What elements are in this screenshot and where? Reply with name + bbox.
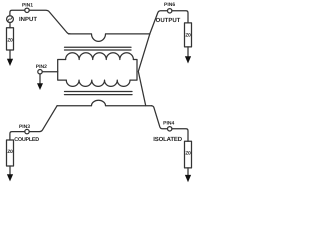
resistor Z0 (input termination) (7, 28, 14, 50)
svg-text:PIN6: PIN6 (164, 2, 175, 8)
node PIN6 terminal (168, 9, 172, 13)
wire: T2 primary right end down to PIN4/ISOLATED (152, 106, 168, 129)
svg-text:Z0: Z0 (185, 151, 191, 157)
ground (arrow) (7, 174, 13, 181)
svg-text:PIN4: PIN4 (163, 121, 174, 127)
svg-text:PIN1: PIN1 (22, 2, 33, 8)
wire: resistor to ground (187, 168, 189, 175)
AC source V1 (7, 16, 14, 23)
wire: PIN2 to ground (39, 74, 41, 84)
svg-text:ISOLATED: ISOLATED (153, 136, 183, 143)
wire: source top horizontal to PIN1 (10, 10, 25, 15)
ground (arrow) under PIN2 (37, 83, 43, 90)
resistor Z0 (coupled termination) (7, 140, 14, 166)
svg-text:COUPLED: COUPLED (14, 137, 39, 143)
svg-text:OUTPUT: OUTPUT (156, 17, 181, 24)
wire: T1 primary right end up to PIN6/OUTPUT (150, 11, 168, 34)
wire: secondary right bracket (130, 60, 137, 81)
wire: resistor to ground (9, 50, 11, 59)
transformer T2 core (65, 91, 133, 93)
svg-text:Z0: Z0 (7, 149, 13, 155)
svg-text:PIN3: PIN3 (19, 124, 30, 130)
node PIN3 terminal (25, 129, 29, 133)
svg-text:Z0: Z0 (185, 33, 191, 39)
wire: resistor to ground (9, 166, 11, 174)
wire: PIN4 to isolated termination (172, 129, 188, 142)
wire: PIN1 to T1 primary (29, 10, 70, 34)
resistor Z0 (output termination) (185, 23, 192, 47)
ground (arrow) (185, 175, 191, 182)
node PIN1 terminal (25, 8, 29, 12)
transformer T1 core (65, 46, 132, 48)
ground (arrow) (7, 59, 13, 66)
node PIN4 terminal (168, 127, 172, 131)
wire: PIN2 stub (42, 71, 58, 73)
wire: secondary left bracket (58, 60, 67, 81)
wire: PIN6 to output termination (172, 11, 188, 23)
wire: PIN3 to coupled termination (10, 132, 25, 140)
wire: source to resistor (9, 23, 11, 28)
wire: T2 primary left end down to PIN3/COUPLED (29, 106, 57, 132)
svg-text:Z0: Z0 (7, 38, 13, 44)
transformer T2 primary (coupled line with bump) (57, 100, 151, 105)
node PIN2 terminal (38, 70, 42, 74)
svg-text:INPUT: INPUT (19, 16, 37, 23)
transformer T1 primary (main line with dip) (69, 34, 150, 42)
resistor Z0 (isolated termination) (185, 141, 192, 168)
transformer T2 secondary (5 loops) (66, 80, 130, 86)
svg-text:PIN2: PIN2 (36, 64, 47, 70)
ground (arrow) (185, 56, 191, 63)
wire: right junction V (main line to secondary junction to T2 primary) (138, 34, 150, 106)
wire: resistor to ground (187, 47, 189, 56)
transformer T1 secondary (5 loops) (66, 53, 134, 60)
